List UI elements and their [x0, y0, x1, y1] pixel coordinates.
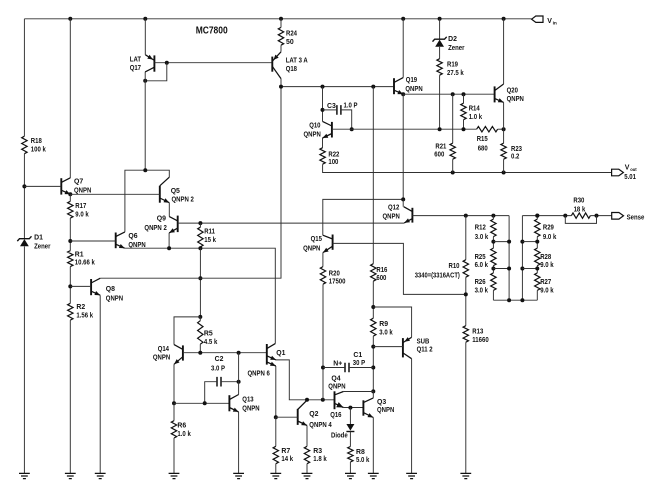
svg-text:Q8: Q8 — [106, 286, 115, 293]
junction rail/Q19 — [401, 17, 405, 21]
wire R26 bottom stub — [492, 290, 494, 300]
svg-text:Q5: Q5 — [171, 188, 180, 195]
wire R16 column upper — [372, 87, 374, 264]
junction Q12 collector — [401, 197, 405, 201]
svg-text:QNPN: QNPN — [303, 245, 320, 252]
wire rail to D2 — [439, 19, 441, 39]
wire R14 top stub — [463, 94, 465, 103]
wire R24 to Q18 emitter — [280, 45, 282, 52]
svg-text:R19: R19 — [447, 61, 458, 68]
wire Q11 base — [373, 346, 403, 348]
svg-text:R14: R14 — [469, 106, 480, 113]
junction R9 bottom/Q11 base — [371, 345, 375, 349]
junction y866/x323 — [321, 85, 325, 89]
wire Vout line — [323, 164, 612, 172]
junction x200/Q8 collector line — [198, 276, 202, 280]
svg-text:3.0 k: 3.0 k — [379, 330, 393, 337]
junction C1 right — [371, 366, 375, 370]
node N+ — [333, 361, 342, 368]
wire R11 top stub — [199, 223, 201, 227]
svg-text:1.0 P: 1.0 P — [344, 102, 358, 109]
svg-text:QNPN: QNPN — [106, 295, 123, 302]
svg-text:100 k: 100 k — [31, 147, 46, 154]
wire R6 top stub — [173, 403, 175, 420]
transistor Q4 — [328, 376, 345, 410]
junction R12/R25 — [491, 240, 495, 244]
junction Vout/R23 — [502, 171, 506, 175]
svg-text:C2: C2 — [215, 356, 224, 363]
junction y94/R14 — [462, 92, 466, 96]
svg-text:QNPN 6: QNPN 6 — [248, 371, 271, 378]
svg-text:R12: R12 — [475, 224, 486, 231]
transistor Q10 — [304, 121, 332, 138]
svg-text:Q7: Q7 — [74, 178, 83, 185]
svg-text:100: 100 — [328, 159, 338, 166]
junction Q14 emitter/C2 line — [172, 401, 176, 405]
transistor Q8 — [91, 278, 123, 302]
wire Q7 base — [24, 185, 61, 187]
svg-text:5.0 k: 5.0 k — [356, 457, 370, 464]
wire Q4 collector line — [343, 391, 373, 393]
junction x200/R5 top — [198, 315, 202, 319]
junction y248/R11 — [198, 246, 202, 250]
svg-text:R22: R22 — [328, 151, 339, 158]
wire Q7 emitter to Q5 base — [70, 193, 160, 195]
wire Q1 lower emitter down — [275, 366, 277, 417]
wire Q4 emitter line to Q3 base — [343, 407, 363, 409]
junction C2 left — [203, 401, 207, 405]
svg-text:SUB: SUB — [417, 339, 430, 346]
transistor Q18 — [272, 52, 307, 79]
wire Q1 upper emitter loop — [276, 360, 335, 400]
svg-text:out: out — [630, 167, 637, 173]
junction y248/Q9 emitter — [167, 246, 171, 250]
svg-text:1.8 k: 1.8 k — [313, 456, 327, 463]
svg-text:R11: R11 — [204, 228, 215, 235]
junction mirror/Q17 — [143, 168, 147, 172]
resistor R3 — [304, 446, 327, 463]
wire R23 top stub — [503, 129, 505, 143]
wire R28 stubs — [536, 266, 538, 273]
wire Q13 collector up — [238, 353, 240, 395]
svg-text:R17: R17 — [75, 203, 86, 210]
junction x70/Q6 base — [68, 239, 72, 243]
wire R19 to Q10 base line — [439, 75, 441, 129]
capacitor C3 — [327, 102, 358, 114]
wire R6 to ground — [173, 438, 175, 473]
transistor Q7 — [61, 178, 91, 195]
resistor R6 — [171, 421, 191, 438]
junction Q4 emitter/diode/Q3 base — [348, 406, 352, 410]
wire x323 to Q10 collector — [322, 87, 324, 122]
svg-text:QNPN: QNPN — [304, 132, 321, 139]
wire C1 left — [323, 367, 345, 369]
wire D1 to ground — [23, 246, 25, 473]
junction R10 bottom/Q15 base line — [464, 292, 468, 296]
wire R9 bottom down — [372, 336, 374, 391]
resistor R30 — [571, 197, 590, 218]
transistor Q17 — [130, 55, 155, 72]
junction sense/R30 left — [563, 214, 567, 218]
wire D2 to R19 — [439, 47, 441, 59]
wire Q11 emitter path — [373, 307, 411, 337]
resistor R22 — [320, 148, 340, 166]
svg-text:LAT 3 A: LAT 3 A — [286, 57, 308, 64]
ground Q8 emitter — [95, 473, 106, 478]
wire x200 column — [199, 248, 201, 317]
resistor R29 — [535, 219, 557, 241]
zener D1 — [17, 234, 50, 250]
junction left/Q7 base — [22, 184, 26, 188]
svg-text:R18: R18 — [31, 138, 42, 145]
svg-text:R28: R28 — [540, 254, 551, 261]
svg-text:R7: R7 — [281, 448, 290, 455]
resistor R17 — [68, 201, 89, 218]
junction R19/base line — [438, 127, 442, 131]
junction R29/R28 — [535, 240, 539, 244]
svg-text:R10: R10 — [449, 263, 460, 270]
svg-text:R8: R8 — [356, 449, 365, 456]
wire R21 top stub — [452, 94, 454, 143]
junction y94/R21 — [451, 92, 455, 96]
resistor R16 — [371, 264, 388, 283]
svg-text:QNPN: QNPN — [405, 86, 422, 93]
junction sense/R30 right — [595, 214, 599, 218]
svg-text:Q13: Q13 — [242, 397, 253, 404]
wire Q19 collector to rail — [402, 19, 404, 78]
svg-text:R29: R29 — [543, 224, 554, 231]
transistor Q20 — [495, 84, 524, 103]
transistor Q6 — [116, 232, 146, 249]
svg-text:3.0 k: 3.0 k — [475, 287, 489, 294]
resistor R1 — [68, 251, 95, 267]
svg-text:Q11 2: Q11 2 — [417, 347, 433, 354]
transistor Q1 — [248, 344, 286, 378]
svg-text:Q10: Q10 — [309, 123, 320, 130]
junction x323/Q4 base — [321, 398, 325, 402]
svg-text:5.01: 5.01 — [624, 174, 636, 181]
ground R7 — [270, 473, 281, 478]
junction R15/R23/Q20 — [502, 127, 506, 131]
wire x70 rail to Q7 collector — [69, 19, 71, 178]
wire R12 stubs — [492, 216, 494, 249]
wire Q6 base — [70, 240, 115, 242]
resistor R19 — [437, 59, 464, 77]
wire Q3 emitter to ground — [372, 418, 374, 474]
resistor R23 — [501, 143, 522, 160]
wire Q5 emitter to Q9 collector — [168, 203, 170, 217]
svg-text:9.0 k: 9.0 k — [75, 211, 89, 218]
wire C1 right — [349, 367, 373, 369]
svg-text:QNPN: QNPN — [328, 384, 345, 391]
junction y866/Q18 — [279, 85, 283, 89]
svg-text:9.0 k: 9.0 k — [540, 287, 554, 294]
junction Q4 collector — [371, 389, 375, 393]
transistor Q5 — [160, 177, 194, 203]
svg-text:Q9: Q9 — [157, 216, 166, 223]
wire Q7 emitter to R17 — [69, 194, 71, 201]
wire R16 to R9 — [372, 281, 374, 318]
wire Q13 emitter to ground — [238, 412, 240, 474]
svg-text:QNPN 2: QNPN 2 — [172, 197, 195, 204]
wire R10 top stub — [465, 216, 467, 260]
resistor R26 — [475, 273, 497, 294]
transistor Q15 — [303, 235, 333, 253]
wire C3 left stub — [323, 109, 337, 111]
wire trim row1 left — [493, 241, 509, 243]
svg-text:Q14: Q14 — [158, 346, 169, 353]
wire Q18 collector stub — [280, 79, 282, 87]
wire Q18 collector to Q19 base — [281, 86, 394, 88]
svg-text:R2: R2 — [76, 304, 85, 311]
junction Vout/R21 — [451, 171, 455, 175]
wire R5 top stub — [199, 317, 201, 321]
svg-text:14 k: 14 k — [281, 456, 293, 463]
wire R7 to ground — [275, 464, 277, 474]
wire Q6 emitter line to Q1 collector — [125, 248, 276, 343]
resistor R10 — [415, 260, 469, 280]
zener D2 — [433, 36, 465, 52]
transistor Q13 — [229, 395, 259, 413]
resistor R27 — [535, 273, 554, 294]
svg-text:R16: R16 — [376, 267, 387, 274]
wire R25 stubs — [492, 266, 494, 273]
svg-text:10.66 k: 10.66 k — [75, 259, 95, 266]
transistor Q2 — [298, 400, 332, 429]
resistor R20 — [320, 267, 345, 286]
wire Q9 emitter down — [168, 233, 170, 248]
resistor R12 — [475, 219, 496, 241]
ground Q13 emitter — [233, 473, 244, 478]
wire Q11 collector to ground — [411, 359, 413, 474]
junction railB/row2 — [520, 267, 524, 271]
wire sense line right — [590, 215, 611, 217]
svg-text:R27: R27 — [540, 279, 551, 286]
wire R7 top stub — [275, 417, 277, 446]
svg-text:Q19: Q19 — [406, 77, 417, 84]
resistor R18 — [22, 136, 46, 154]
resistor R7 — [273, 446, 293, 463]
wire R15 to Q20 emitter node — [498, 128, 504, 130]
wire C3 right — [341, 110, 352, 129]
wire Q8 emitter to ground — [99, 295, 101, 473]
wire Q8 base — [70, 285, 91, 287]
svg-text:R3: R3 — [313, 448, 322, 455]
junction bottom/railB — [520, 298, 524, 302]
wire R1 to R2 — [69, 267, 71, 304]
wire Q19 emitter down to Q12 — [402, 94, 404, 199]
resistor R15 — [477, 127, 498, 153]
svg-text:9.0 k: 9.0 k — [540, 262, 554, 269]
ground x70 column — [65, 473, 76, 478]
wire R14 bottom stub — [463, 120, 465, 130]
resistor R5 — [198, 321, 218, 346]
wire R18 to D1 — [23, 154, 25, 239]
wire Q15 base line — [333, 243, 466, 294]
wire C2 line to Q13 base — [174, 402, 229, 404]
transistor Q3 — [363, 398, 394, 418]
svg-text:QNPN: QNPN — [377, 407, 394, 414]
svg-text:R5: R5 — [204, 330, 213, 337]
svg-text:1.56 k: 1.56 k — [76, 312, 93, 319]
svg-text:Q6: Q6 — [128, 233, 137, 240]
wire R13 to ground — [465, 342, 467, 473]
svg-text:R1: R1 — [75, 251, 84, 258]
junction Q7 emitter — [68, 192, 72, 196]
junction railB/row1 — [520, 240, 524, 244]
svg-text:R6: R6 — [177, 422, 186, 429]
svg-text:V: V — [547, 18, 552, 25]
wire Q8 collector line — [100, 87, 281, 279]
ground R13 — [460, 473, 471, 478]
junction C3 right/Q10 base — [350, 127, 354, 131]
junction Q19 emitter — [401, 92, 405, 96]
wire R21 bottom stub — [452, 159, 454, 172]
wire diode top stub — [349, 408, 351, 424]
wire R2 to ground — [69, 320, 71, 473]
junction railA/row1 — [507, 240, 511, 244]
wire Q17 collector down — [144, 72, 146, 170]
junction rail/R24 — [279, 17, 283, 21]
svg-text:17500: 17500 — [329, 279, 346, 286]
junction C2 right/Q13 collector — [237, 380, 241, 384]
svg-text:R23: R23 — [511, 146, 522, 153]
svg-text:V: V — [625, 165, 630, 172]
wire C2 right — [221, 381, 239, 383]
wire Vin rail — [24, 18, 531, 20]
svg-text:Sense: Sense — [627, 215, 645, 222]
wire Q17 base-collector loop — [145, 63, 167, 81]
junction railA/row2 — [507, 267, 511, 271]
junction rail/x70 — [68, 17, 72, 21]
wire Q10 emitter to R22 — [322, 138, 324, 148]
svg-text:Diode: Diode — [331, 432, 348, 439]
svg-text:0.2: 0.2 — [511, 154, 519, 161]
resistor R28 — [535, 248, 554, 269]
svg-text:Q16: Q16 — [330, 412, 341, 419]
wire R3 to ground — [306, 464, 308, 474]
svg-text:3.0 k: 3.0 k — [475, 234, 489, 241]
wire Q12 collector stub — [402, 199, 404, 206]
resistor R21 — [434, 143, 455, 159]
svg-text:27.5 k: 27.5 k — [447, 70, 464, 77]
wire trim rail A — [508, 216, 510, 301]
wire rail to R24 — [280, 19, 282, 28]
wire diode to R8 — [349, 432, 351, 447]
svg-text:680: 680 — [478, 146, 488, 153]
svg-text:C3: C3 — [327, 103, 336, 110]
junction C3 left — [321, 108, 325, 112]
wire trim row2 left — [493, 268, 509, 270]
svg-text:R20: R20 — [329, 270, 340, 277]
svg-text:1.0 k: 1.0 k — [177, 431, 191, 438]
svg-text:Q18: Q18 — [286, 66, 297, 73]
svg-text:D2: D2 — [448, 36, 457, 43]
svg-text:6.0 k: 6.0 k — [475, 262, 489, 269]
wire trim row2 right — [522, 268, 537, 270]
svg-text:QNPN: QNPN — [507, 96, 524, 103]
resistor R24 — [278, 27, 297, 45]
svg-text:C1: C1 — [353, 352, 362, 359]
terminal Vout flag — [612, 165, 637, 181]
junction R14/base line — [462, 127, 466, 131]
svg-text:Q12: Q12 — [388, 205, 399, 212]
svg-text:QNPN: QNPN — [242, 405, 259, 412]
wire Q14 base line — [183, 352, 267, 354]
capacitor C1 — [345, 352, 365, 372]
junction R12 top — [491, 214, 495, 218]
wire Q14 emitter down — [173, 364, 175, 403]
wire R10 to R13 — [465, 277, 467, 326]
wire Q15 emitter to R20 — [322, 253, 324, 267]
wire mirror top line — [125, 170, 169, 232]
svg-text:R24: R24 — [286, 30, 297, 37]
svg-text:N+: N+ — [333, 361, 342, 368]
transistor Q12 — [383, 205, 413, 223]
junction R10 top — [464, 214, 468, 218]
svg-text:9.0 k: 9.0 k — [543, 234, 557, 241]
wire Q9 base line to Q12 emitter — [178, 222, 405, 224]
wire Q2 base — [276, 416, 298, 418]
junction y866/R16 column — [371, 85, 375, 89]
svg-text:600: 600 — [376, 275, 386, 282]
wire left rail upper — [23, 19, 25, 136]
wire Q20 collector to rail — [503, 19, 505, 84]
svg-text:3340=(3316ACT): 3340=(3316ACT) — [415, 273, 460, 280]
wire Q3 collector stub — [372, 391, 374, 398]
junction x323/N+ C1 — [321, 366, 325, 370]
wire rail to Q17 emitter — [144, 19, 146, 55]
wire Q10 base line — [332, 128, 477, 130]
svg-text:R21: R21 — [435, 143, 446, 150]
junction base line/Q13 collector — [237, 351, 241, 355]
svg-text:QNPN: QNPN — [153, 355, 170, 362]
svg-text:15 k: 15 k — [204, 237, 216, 244]
svg-text:LAT: LAT — [130, 56, 142, 63]
junction R25/R26 — [491, 267, 495, 271]
resistor R25 — [475, 248, 497, 269]
ground R8 — [345, 473, 356, 478]
svg-text:Q4: Q4 — [331, 376, 340, 383]
junction base line/R5 — [198, 351, 202, 355]
junction R9 top/Q11 emitter — [371, 305, 375, 309]
svg-text:Q2: Q2 — [309, 411, 318, 418]
svg-text:R25: R25 — [475, 254, 486, 261]
svg-text:R30: R30 — [573, 197, 584, 204]
svg-text:1.0 k: 1.0 k — [469, 114, 483, 121]
ground left rail — [19, 473, 30, 478]
wire R27 bottom stub — [536, 290, 538, 300]
svg-text:11660: 11660 — [472, 337, 489, 344]
terminal Sense flag — [612, 213, 645, 222]
wire R20 down x323 column — [322, 284, 324, 400]
capacitor C2 — [211, 356, 225, 387]
wire R30 shorting loop — [565, 216, 596, 224]
svg-text:Q20: Q20 — [507, 88, 518, 95]
svg-text:30 P: 30 P — [353, 360, 366, 367]
wire R8 to ground — [349, 462, 351, 473]
svg-text:Q1: Q1 — [276, 350, 285, 357]
resistor R9 — [371, 318, 393, 336]
svg-text:R15: R15 — [477, 136, 488, 143]
wire trim row1 right — [522, 241, 537, 243]
wire R11 bottom stub — [199, 247, 201, 248]
wire Q15 collector line — [323, 199, 403, 235]
svg-text:3.0 P: 3.0 P — [211, 365, 225, 372]
wire R5 bottom stub — [199, 344, 201, 353]
title MC7800 — [196, 26, 228, 37]
svg-text:Zener: Zener — [448, 45, 465, 52]
